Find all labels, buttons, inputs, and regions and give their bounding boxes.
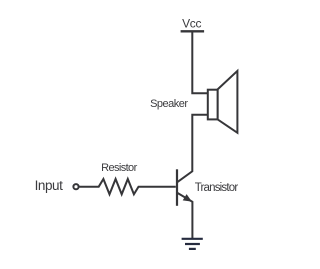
svg-text:Speaker: Speaker xyxy=(150,98,188,110)
svg-text:Resistor: Resistor xyxy=(101,162,137,174)
svg-text:Vcc: Vcc xyxy=(182,17,201,31)
svg-text:Transistor: Transistor xyxy=(195,182,239,194)
svg-text:Input: Input xyxy=(35,178,63,193)
